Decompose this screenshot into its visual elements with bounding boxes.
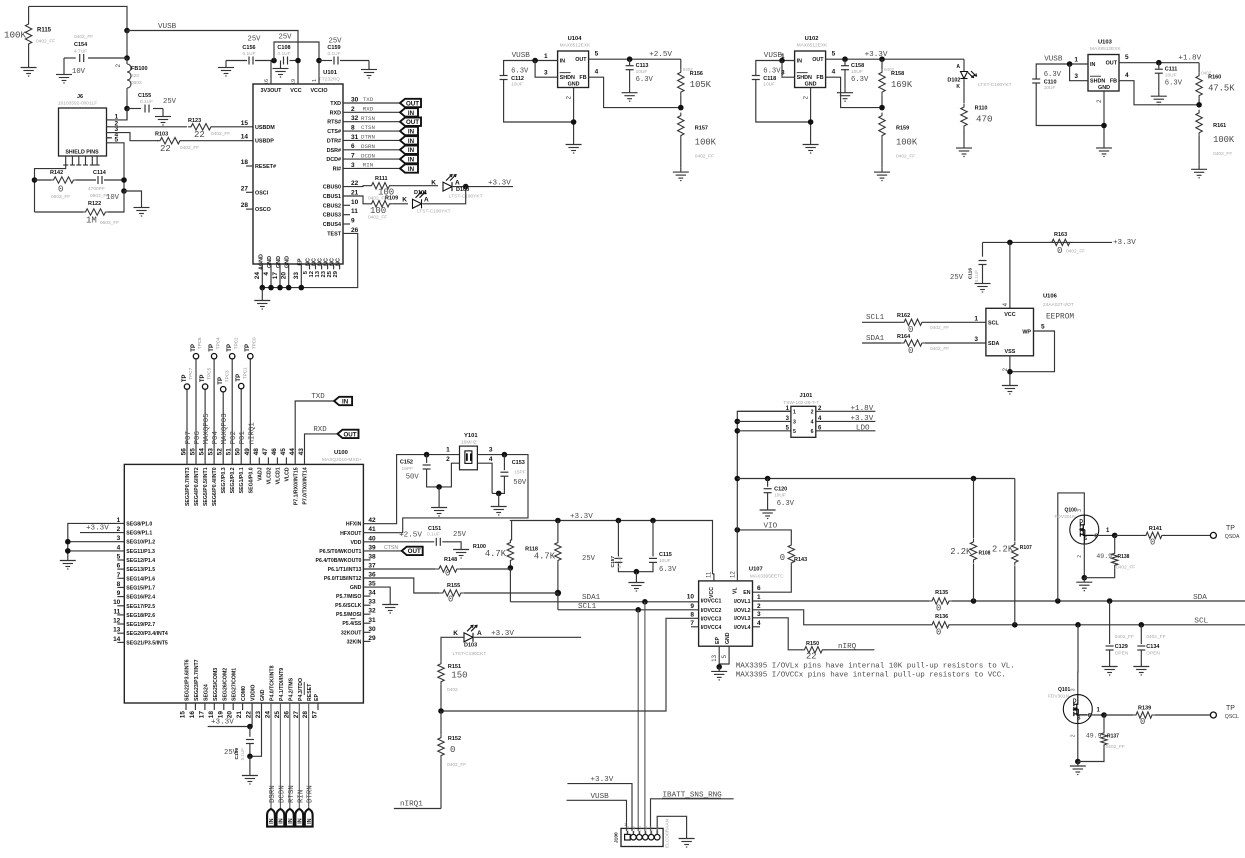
svg-text:0402_FF: 0402_FF [930, 346, 949, 352]
svg-text:47.5K: 47.5K [1208, 84, 1235, 94]
ground left of C156 [225, 61, 227, 64]
wire P07 to test point TPC7 [186, 389, 188, 464]
svg-text:SEG6/P0.4/INT0: SEG6/P0.4/INT0 [212, 467, 218, 506]
svg-text:MAX8512EXK: MAX8512EXK [1090, 46, 1121, 52]
svg-text:SCL: SCL [1194, 617, 1208, 625]
svg-text:SEG15/P1.7: SEG15/P1.7 [126, 585, 155, 591]
svg-text:P4.3/TDO: P4.3/TDO [298, 678, 304, 701]
svg-text:P5.4/SS: P5.4/SS [342, 621, 362, 627]
svg-text:P07: P07 [185, 431, 193, 444]
svg-text:K: K [956, 84, 960, 90]
wire SDA1/SCL1 down to J100 [644, 602, 646, 831]
ground return C110 / GND pin [1036, 83, 1104, 126]
wire MAXQP03 to test point TPC3 [222, 392, 224, 465]
ground below C134 [1133, 662, 1149, 675]
svg-text:18: 18 [208, 711, 215, 719]
resistor R136 0 in SCL rail [929, 622, 952, 628]
svg-text:27: 27 [241, 185, 249, 192]
wire WP pin 5 of U106 to VSS [1010, 331, 1055, 372]
svg-text:FDV301N: FDV301N [1048, 694, 1070, 700]
svg-text:MAXQ2010-MXD+: MAXQ2010-MXD+ [322, 457, 362, 463]
svg-text:R135: R135 [935, 590, 948, 596]
wire VUSB top loop [29, 6, 127, 30]
svg-text:3: 3 [1074, 73, 1078, 80]
svg-text:TEST: TEST [327, 231, 341, 237]
wire J6 pin3 to R103 (USBDP) [112, 133, 158, 141]
svg-text:R137: R137 [1107, 734, 1119, 740]
resistor R103 22 0402_FF [157, 138, 183, 144]
svg-text:3V3OUT: 3V3OUT [261, 88, 283, 94]
IC U107 MAX3395EETC level translator [699, 581, 753, 646]
test point TPC2 [230, 354, 235, 359]
net +3.3V rail above U107 [512, 521, 713, 575]
svg-text:4.7K: 4.7K [534, 552, 556, 562]
svg-text:P7.1/RX0/INT15: P7.1/RX0/INT15 [294, 467, 300, 505]
resistor R160 47.5K feedback top [1198, 63, 1200, 73]
svg-text:C112: C112 [511, 76, 524, 82]
ground below C158 [837, 88, 853, 101]
svg-text:TXD: TXD [311, 393, 325, 401]
svg-text:+3.3V: +3.3V [851, 415, 874, 423]
wire to ground stub [124, 191, 142, 203]
svg-text:RTSN: RTSN [361, 115, 375, 122]
ground below C129 [1102, 662, 1118, 675]
svg-text:0.1UF: 0.1UF [242, 51, 255, 57]
svg-text:25V: 25V [453, 531, 467, 539]
svg-text:R155: R155 [447, 583, 460, 589]
svg-text:R159: R159 [896, 126, 909, 132]
svg-text:VUSB: VUSB [512, 52, 531, 60]
svg-text:+3.3V: +3.3V [1113, 239, 1136, 247]
ground below R159 [874, 168, 890, 181]
svg-text:5: 5 [595, 51, 599, 58]
svg-text:DSR#: DSR# [327, 148, 341, 154]
svg-text:SEG2/P0.2: SEG2/P0.2 [230, 467, 236, 493]
flag DCDN IN [277, 809, 285, 827]
svg-text:48: 48 [253, 448, 260, 456]
svg-text:0402_FF: 0402_FF [896, 154, 915, 160]
wire P01 to test point TPC1 [240, 389, 242, 465]
svg-text:10V: 10V [72, 68, 86, 76]
svg-text:+1.8V: +1.8V [851, 405, 874, 413]
svg-text:1M: 1M [86, 216, 97, 226]
capacitor C115 10uF 6.3V [650, 518, 656, 524]
svg-text:TP: TP [227, 344, 233, 352]
svg-text:50V: 50V [406, 474, 420, 482]
resistor R100 4.7K pullup SDA1 [511, 521, 513, 541]
transistor Q101 FDV301N [1063, 695, 1092, 724]
svg-text:1: 1 [544, 53, 548, 60]
svg-text:100K: 100K [695, 138, 717, 148]
test point TPC0 [248, 354, 253, 359]
node VUSB [124, 28, 130, 34]
svg-text:SEG4/P0.6/INT2: SEG4/P0.6/INT2 [194, 467, 200, 506]
svg-text:0: 0 [908, 346, 913, 356]
svg-text:1: 1 [793, 410, 796, 416]
svg-text:C157: C157 [610, 556, 616, 568]
svg-text:OPEN: OPEN [1115, 651, 1129, 657]
svg-text:TPC0: TPC0 [252, 337, 257, 349]
svg-text:49.9: 49.9 [1086, 733, 1102, 740]
svg-text:GND: GND [568, 82, 580, 88]
wire J6 pin1 to VUSB node [112, 109, 127, 120]
svg-text:G: G [1094, 534, 1098, 540]
svg-text:G: G [1088, 713, 1092, 719]
svg-text:10UF: 10UF [774, 493, 786, 499]
svg-text:+3.3V: +3.3V [86, 524, 109, 532]
svg-text:P5.5/MOSI: P5.5/MOSI [336, 612, 362, 618]
svg-text:VSS: VSS [1005, 349, 1016, 355]
pins 3/4 of J101 [737, 420, 791, 422]
svg-text:+3.3V: +3.3V [570, 513, 593, 521]
svg-text:TPC7: TPC7 [188, 367, 193, 379]
svg-text:25V: 25V [582, 555, 596, 563]
svg-text:R150: R150 [806, 641, 819, 647]
wire FB of U104 [589, 77, 681, 107]
svg-text:J101: J101 [800, 393, 814, 399]
svg-text:6.3V: 6.3V [511, 68, 529, 76]
ground below C153 [498, 493, 500, 502]
svg-text:LTST-C190YKT: LTST-C190YKT [978, 82, 1012, 88]
flag RIN IN [295, 809, 303, 827]
resistor R158 169K feedback top [879, 56, 885, 62]
svg-text:R141: R141 [1149, 526, 1162, 532]
svg-text:16: 16 [189, 711, 196, 719]
svg-text:100K: 100K [896, 138, 918, 148]
svg-text:57: 57 [312, 711, 319, 719]
svg-text:17: 17 [272, 272, 279, 280]
svg-text:C111: C111 [1165, 67, 1178, 73]
svg-text:GND: GND [725, 632, 731, 644]
svg-text:SHIELD PINS: SHIELD PINS [65, 150, 99, 156]
svg-text:QSCL: QSCL [1225, 714, 1239, 720]
svg-text:FB: FB [579, 75, 586, 81]
svg-text:2.2K: 2.2K [950, 547, 972, 557]
svg-text:MAX8512EXK: MAX8512EXK [797, 43, 828, 49]
IC U106 24AA02T-I/OT EEPROM [986, 308, 1034, 356]
svg-text:OPEN: OPEN [1146, 651, 1160, 657]
svg-text:VDD: VDD [350, 540, 361, 546]
ground return C118 / GND pin [756, 80, 811, 123]
resistor R110 470 [961, 104, 967, 129]
svg-text:+1.8V: +1.8V [1178, 55, 1201, 63]
svg-text:MAX3395EETC: MAX3395EETC [750, 574, 784, 580]
svg-text:6.3V: 6.3V [851, 76, 869, 84]
wire SCL to Q101 drain [1077, 625, 1079, 695]
svg-text:20: 20 [281, 272, 288, 280]
svg-text:R110: R110 [975, 106, 988, 112]
svg-text:TP: TP [209, 344, 215, 352]
svg-text:RESET: RESET [307, 683, 313, 701]
voltage regulator U102 MAX8512EXK [795, 51, 826, 88]
node R118/R155 -> SCL1 [555, 590, 561, 596]
ground right of U100 [382, 600, 398, 613]
svg-text:OSCI: OSCI [255, 190, 269, 196]
svg-text:R151: R151 [448, 664, 461, 670]
wire SHDN of U103 [1070, 64, 1088, 81]
svg-text:45: 45 [280, 448, 287, 456]
svg-text:6.3V: 6.3V [1044, 71, 1062, 79]
svg-text:Q100: Q100 [1065, 508, 1077, 514]
resistor R157 100K feedback bottom [678, 113, 684, 139]
svg-text:3: 3 [757, 611, 761, 618]
svg-text:P6.0/T1B/INT12: P6.0/T1B/INT12 [324, 576, 362, 582]
svg-text:P04: P04 [212, 431, 220, 445]
crystal Y101 16MHZ [460, 446, 478, 470]
svg-text:RESET#: RESET# [255, 164, 276, 170]
svg-text:TPC4: TPC4 [215, 337, 220, 349]
pin 4 of J100 [643, 834, 649, 840]
ground right of C151 [453, 545, 469, 558]
capacitor C129 OPEN 0402_FF [1109, 601, 1111, 644]
svg-text:NC: NC [312, 258, 318, 266]
svg-text:5: 5 [1041, 324, 1045, 331]
wire HFXIN pin 42 to crystal pin 1 [363, 455, 459, 524]
svg-text:P7.0/TX0/INT14: P7.0/TX0/INT14 [303, 467, 309, 504]
svg-text:R142: R142 [50, 170, 63, 176]
svg-text:R115: R115 [37, 28, 52, 34]
svg-text:EP: EP [715, 637, 721, 644]
svg-text:GND: GND [350, 585, 362, 591]
wire J100 pin 6 to ground [657, 816, 686, 834]
wire GND pin 23 of U100 [250, 703, 262, 756]
wire P02 to test point TPC2 [231, 359, 233, 465]
svg-text:TPC2: TPC2 [233, 337, 238, 349]
svg-text:0603: 0603 [131, 80, 142, 86]
svg-text:11: 11 [707, 571, 713, 578]
svg-text:25V: 25V [163, 98, 177, 106]
svg-text:0402_FF: 0402_FF [211, 131, 230, 137]
voltage regulator U104 MAX8512EXK [558, 51, 589, 88]
svg-text:R162: R162 [897, 313, 910, 319]
svg-text:6.3V: 6.3V [763, 68, 781, 76]
ground stub for C108 [280, 61, 282, 65]
svg-text:USBDM: USBDM [255, 125, 275, 131]
svg-text:4.7UF: 4.7UF [74, 49, 87, 55]
svg-text:0.1UF: 0.1UF [974, 270, 979, 283]
svg-text:SCL1: SCL1 [578, 603, 597, 611]
svg-text:GND: GND [805, 82, 817, 88]
wire P04 to test point TPC4 [213, 359, 215, 465]
svg-text:OUT: OUT [406, 100, 419, 107]
ground below R157 [673, 168, 689, 181]
capacitor C114 4700pF 10V [98, 176, 102, 184]
svg-text:DCDN: DCDN [278, 785, 286, 803]
capacitor C108 0.1uF 25V [284, 57, 288, 65]
svg-text:EN: EN [743, 590, 750, 596]
svg-text:C152: C152 [400, 460, 413, 466]
svg-text:C116: C116 [968, 268, 974, 280]
svg-text:SDA: SDA [1193, 594, 1207, 602]
svg-text:IN: IN [408, 129, 415, 136]
svg-text:DCD#: DCD# [326, 157, 341, 163]
svg-text:10: 10 [113, 599, 121, 606]
svg-text:28: 28 [241, 202, 249, 209]
svg-text:MAX3395 I/OVLx pins have inter: MAX3395 I/OVLx pins have internal 10K pu… [736, 663, 1015, 671]
svg-text:I/OVCC3: I/OVCC3 [701, 616, 722, 622]
svg-text:0402: 0402 [1201, 71, 1212, 76]
svg-text:GND: GND [267, 256, 273, 268]
svg-text:TP: TP [245, 344, 251, 352]
svg-text:IN: IN [342, 398, 349, 405]
svg-text:EP: EP [314, 694, 320, 701]
svg-text:C158: C158 [851, 63, 864, 69]
svg-text:TP: TP [1226, 705, 1235, 712]
svg-text:NC: NC [336, 258, 342, 266]
pin 4 stub of J6 [107, 137, 111, 139]
pin 5 of J6 [107, 142, 113, 144]
svg-text:IN: IN [408, 110, 415, 117]
ground below U103 [1096, 144, 1112, 157]
capacitor C159 0.1uF 25V [319, 60, 332, 62]
svg-text:J6: J6 [77, 94, 83, 100]
wire SHDN of U102 [782, 61, 795, 78]
svg-text:SEG16/P2.4: SEG16/P2.4 [126, 595, 155, 601]
svg-text:A: A [424, 197, 429, 204]
svg-text:MAX3395 I/OVCCx pins have inte: MAX3395 I/OVCCx pins have internal pull-… [736, 672, 1006, 680]
svg-text:IN: IN [408, 157, 415, 164]
svg-text:5: 5 [832, 51, 836, 58]
svg-text:IN: IN [408, 138, 415, 145]
svg-text:C159: C159 [327, 45, 340, 51]
svg-text:U102: U102 [805, 36, 819, 42]
resistor R150 22 to nIRQ [801, 647, 825, 653]
svg-text:P4.2/TMS: P4.2/TMS [288, 677, 294, 701]
svg-text:IN: IN [560, 59, 565, 65]
svg-text:1: 1 [312, 79, 318, 82]
svg-text:SCL: SCL [988, 321, 999, 327]
svg-text:0: 0 [450, 745, 455, 755]
ground below U102 [803, 140, 819, 153]
resistor R161 100K feedback bottom [1196, 110, 1202, 136]
wire OUT of U104 to +2.5V [589, 58, 681, 60]
svg-text:nIRQ: nIRQ [838, 643, 857, 651]
svg-text:TPC6: TPC6 [197, 337, 202, 349]
svg-text:IN: IN [288, 818, 294, 823]
wire VUSB to regulators/FTDI [127, 31, 298, 61]
shield pin stubs of J6 [65, 156, 67, 165]
svg-text:SEG12/P1.4: SEG12/P1.4 [126, 558, 155, 564]
svg-text:CBUS0: CBUS0 [323, 185, 341, 191]
svg-text:5: 5 [1125, 54, 1129, 61]
wire TEST pin to ground bus [262, 233, 357, 287]
svg-text:0: 0 [448, 595, 453, 605]
svg-text:220: 220 [131, 73, 139, 79]
capacitor C111 10uF 6.3V output [1158, 63, 1160, 69]
svg-text:A: A [956, 64, 960, 70]
svg-text:TP: TP [191, 344, 197, 352]
svg-text:2: 2 [1071, 734, 1077, 737]
wire CBUS1 to R109 [343, 196, 369, 204]
svg-text:MAXQP03: MAXQP03 [221, 413, 229, 444]
svg-text:4: 4 [489, 456, 493, 463]
svg-text:100: 100 [370, 206, 386, 216]
wire GND pin 35 of U100 to ground [363, 587, 390, 600]
pin 11 VCC of U107 wire [713, 574, 714, 581]
resistor R159 100K feedback bottom [879, 113, 885, 139]
svg-text:4: 4 [263, 272, 270, 276]
svg-text:0402_FF: 0402_FF [1106, 744, 1125, 750]
svg-text:15PF: 15PF [514, 470, 526, 476]
wire crystal pin 3 to C153 and HFXOUT loop [363, 455, 528, 533]
svg-text:10UF: 10UF [636, 69, 648, 75]
svg-text:SEG25/COM3: SEG25/COM3 [213, 668, 219, 701]
svg-text:169K: 169K [891, 80, 913, 90]
svg-text:10UF: 10UF [511, 82, 523, 88]
svg-text:SHDN: SHDN [560, 75, 575, 81]
svg-text:USBDP: USBDP [255, 139, 274, 145]
svg-text:470: 470 [976, 114, 993, 125]
svg-text:C120: C120 [774, 487, 787, 493]
svg-text:TPC1: TPC1 [242, 367, 247, 379]
svg-text:DCDN: DCDN [361, 152, 375, 159]
svg-text:LDO: LDO [856, 424, 870, 432]
resistor R139 0 to TP QSCL [1104, 714, 1133, 716]
resistor R148 0 on P6.1 (pin 37) [363, 568, 435, 570]
svg-text:TP: TP [1226, 525, 1235, 532]
svg-text:C108: C108 [277, 45, 290, 51]
resistor R155 0 on P6.0 (pin 36) [363, 578, 439, 593]
svg-text:P6.1/T1/INT13: P6.1/T1/INT13 [328, 567, 362, 573]
pin 4 of J6 [107, 137, 113, 139]
svg-text:RTS#: RTS# [327, 120, 341, 126]
svg-text:3: 3 [489, 447, 493, 454]
ground return C112 / GND pin [504, 80, 574, 123]
resistor R162 0 0402_FF [901, 319, 925, 325]
svg-text:0402_FF: 0402_FF [1066, 249, 1085, 255]
svg-text:C156: C156 [242, 45, 255, 51]
svg-text:C129: C129 [1115, 644, 1128, 650]
svg-text:R122: R122 [88, 201, 101, 207]
svg-text:EEPROM: EEPROM [1046, 314, 1074, 322]
svg-text:C155: C155 [138, 93, 151, 99]
svg-text:VLCD2: VLCD2 [266, 467, 272, 484]
svg-text:SEG27/COM1: SEG27/COM1 [232, 668, 238, 701]
svg-text:FB: FB [816, 75, 823, 81]
svg-text:DTRN: DTRN [307, 785, 315, 803]
svg-text:105K: 105K [690, 80, 712, 90]
svg-text:0402_FF: 0402_FF [180, 145, 199, 151]
svg-text:32KOUT: 32KOUT [341, 630, 362, 636]
svg-text:0: 0 [1057, 246, 1062, 256]
node R100/R148 -> SDA1 [508, 565, 514, 571]
svg-text:C115: C115 [659, 552, 672, 558]
svg-text:D: D [1079, 519, 1083, 525]
svg-text:SEG18/P2.6: SEG18/P2.6 [126, 613, 155, 619]
resistor R151 150 0402 [438, 661, 444, 685]
svg-text:25V: 25V [950, 274, 964, 282]
resistor R123 22 0402_FF [188, 124, 214, 130]
svg-text:SEG3/P0.7/INT3: SEG3/P0.7/INT3 [185, 467, 191, 506]
ground right of J100 [679, 834, 695, 847]
svg-text:12: 12 [309, 271, 315, 277]
svg-text:WP: WP [1022, 330, 1031, 336]
capacitor C150 0.1uF 25V [249, 727, 251, 737]
svg-text:SDA: SDA [988, 341, 999, 347]
wire D101 anode to +3.3V node [423, 187, 466, 204]
svg-text:0: 0 [1150, 538, 1155, 548]
IC U100 MAXQ2010-MXD microcontroller [124, 464, 363, 703]
svg-text:6: 6 [757, 585, 761, 592]
svg-text:nIRQ1: nIRQ1 [248, 422, 256, 445]
svg-text:9: 9 [690, 603, 694, 610]
svg-text:SCL1: SCL1 [866, 314, 885, 322]
ground below C111 [1151, 92, 1167, 105]
svg-text:CTS#: CTS# [327, 129, 341, 135]
svg-text:15: 15 [180, 711, 187, 719]
svg-text:46: 46 [271, 448, 278, 456]
svg-text:VUSB: VUSB [158, 23, 177, 31]
